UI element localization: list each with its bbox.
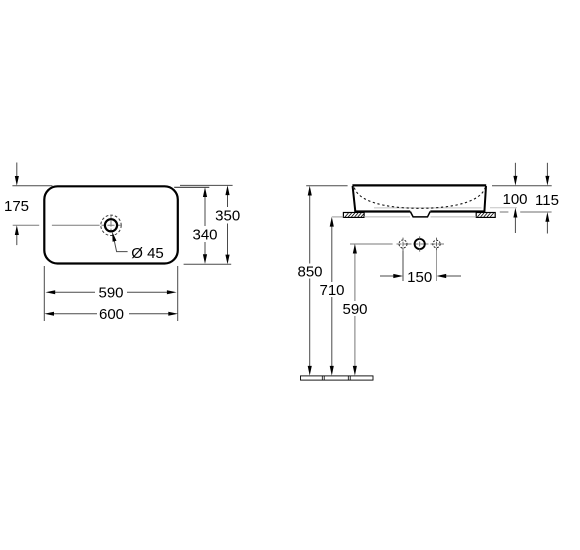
extension line bottom right (600/590) (177, 266, 179, 321)
svg-text:115: 115 (535, 192, 559, 209)
extension line below left tap hole (402, 251, 404, 282)
drain hole (solid circle) (415, 236, 425, 251)
svg-text:350: 350 (215, 208, 240, 225)
tap hole right (dashed circle) (433, 238, 440, 251)
tap hole left (dashed circle) (399, 238, 407, 251)
svg-text:590: 590 (98, 285, 123, 302)
svg-text:340: 340 (192, 227, 217, 244)
dimension 100 (vertical, right) (513, 163, 517, 233)
extension line bottom left (600/590) (43, 266, 45, 321)
centerline through faucet hole (horizontal) (13, 224, 122, 226)
dimension 590 (horizontal) (46, 290, 177, 294)
extension line bottom of 115 (500, 211, 509, 213)
basin profile (side view) (352, 185, 486, 211)
dimension 710 (vertical) (330, 217, 334, 376)
tap holes centerline (horizontal) (350, 243, 444, 245)
countertop bottom line (left of hatch) (332, 216, 344, 218)
faucet hole (solid circle) (105, 219, 117, 231)
faucet hole centerline (vertical) (110, 215, 112, 236)
dimension 850 (vertical) (308, 186, 312, 376)
svg-text:100: 100 (502, 191, 527, 208)
svg-text:590: 590 (342, 301, 367, 318)
dimension 340 (vertical) (203, 187, 207, 264)
countertop bottom line (under basin, left of drain) (364, 216, 410, 218)
svg-text:600: 600 (99, 306, 124, 323)
dimension 115 (vertical, right) (545, 163, 549, 234)
dimension 600 (horizontal) (44, 312, 178, 316)
floor line (301, 376, 374, 380)
extension line bottom right of basin (184, 263, 232, 265)
svg-text:710: 710 (319, 282, 344, 299)
faucet hole drilling circle (dashed) (101, 215, 121, 235)
extension line top right of basin (350) (180, 184, 233, 186)
svg-text:150: 150 (407, 269, 432, 286)
dimension 590 (vertical, side view) (353, 244, 357, 376)
dimension 350 (vertical) (225, 185, 229, 264)
svg-text:175: 175 (4, 198, 29, 215)
drain recess (trapezoid) (410, 212, 430, 217)
extension line for 340 top (174, 186, 209, 188)
dimension 175 (vertical, left) (12, 163, 52, 246)
countertop bottom line (under basin, right of drain) (431, 216, 477, 218)
leader line for Ø 45 (112, 232, 127, 252)
svg-text:850: 850 (297, 263, 322, 280)
bowl interior bottom line (faint) (374, 207, 482, 209)
basin outline U1 (top view rounded rectangle) (44, 186, 178, 263)
rim extension line left (for 850) (306, 185, 347, 187)
countertop left section (hatched) (343, 213, 364, 218)
extension line below right tap hole (faint) (436, 251, 438, 282)
bowl interior dashed curve (354, 188, 485, 209)
dimension 150 (horizontal) (380, 274, 461, 278)
countertop right section (hatched) (476, 213, 495, 218)
extension line bottom of 100 (faint) (490, 207, 517, 209)
svg-text:Ø 45: Ø 45 (131, 245, 164, 262)
rim extension line right (for 100/115) (492, 185, 552, 187)
